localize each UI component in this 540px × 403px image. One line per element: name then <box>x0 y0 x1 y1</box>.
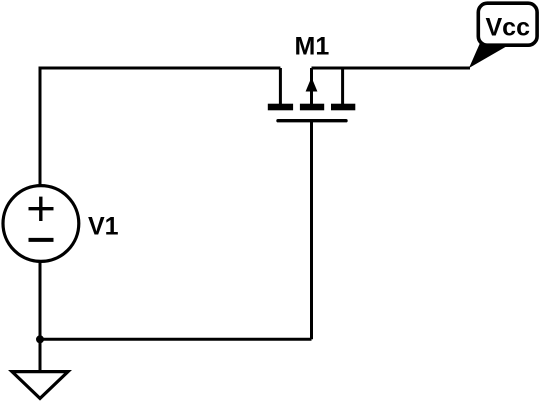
wire: below V1 to junction <box>39 261 42 339</box>
wire: source/bulk to Vcc flag <box>312 67 471 70</box>
wire: bottom horizontal from junction to gate <box>40 338 312 341</box>
svg-text:M1: M1 <box>295 33 330 61</box>
source terminal <box>341 68 344 104</box>
bulk channel bar <box>300 104 324 111</box>
wire: top-left horizontal from V1 top to M1 drain <box>40 68 280 185</box>
drain channel bar <box>268 104 293 111</box>
svg-text:Vcc: Vcc <box>486 14 531 42</box>
gate electrode line <box>278 119 346 122</box>
source channel bar <box>331 104 355 111</box>
transistor M1 (NMOS, 4-terminal) <box>268 68 356 121</box>
net flag Vcc <box>469 3 537 68</box>
drain terminal <box>279 68 282 104</box>
wire: gate vertical <box>310 121 313 340</box>
ground <box>12 372 68 399</box>
svg-text:V1: V1 <box>88 213 119 241</box>
bulk terminal with arrow <box>310 68 313 104</box>
wire: junction down to ground <box>39 339 42 370</box>
voltage source V1 <box>3 186 79 262</box>
node junction <box>36 335 44 343</box>
